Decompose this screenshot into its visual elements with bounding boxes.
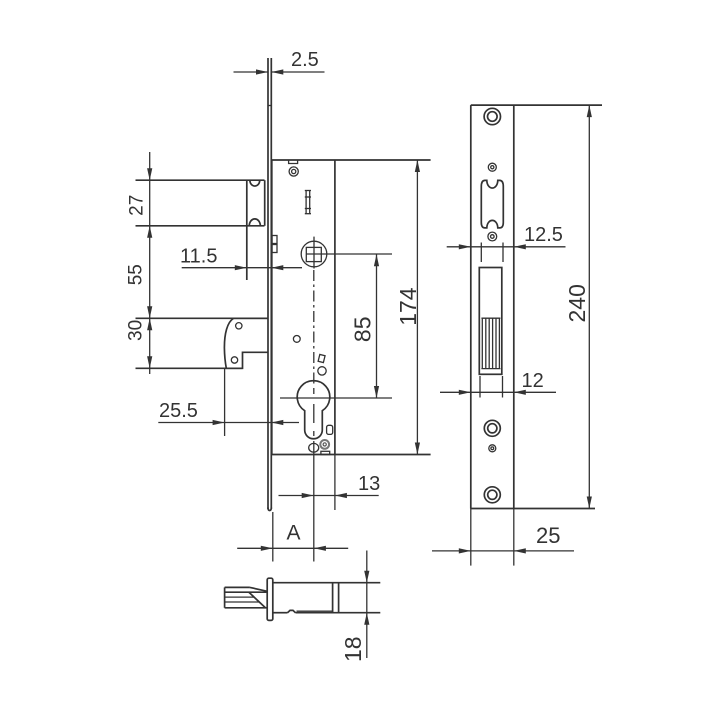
plate outline bbox=[471, 105, 602, 508]
svg-text:11.5: 11.5 bbox=[180, 246, 217, 268]
dimension 2.5 (faceplate thickness) bbox=[234, 49, 325, 75]
screw top bbox=[289, 167, 298, 176]
svg-text:25: 25 bbox=[536, 523, 560, 548]
top clip bbox=[289, 160, 298, 164]
extension line y=368.3 (lever bottom) bbox=[136, 367, 243, 369]
svg-text:174: 174 bbox=[395, 287, 421, 326]
latch head (bottom view) bbox=[225, 587, 268, 607]
svg-text:13: 13 bbox=[358, 473, 380, 495]
dimension 25 bbox=[432, 509, 574, 566]
extension line y=318.3 (lever top) bbox=[136, 317, 268, 319]
dimension 240 bbox=[564, 105, 592, 508]
small rounded rect right of cylinder bbox=[327, 425, 333, 434]
dimension 85 bbox=[349, 254, 379, 398]
svg-text:27: 27 bbox=[127, 195, 148, 216]
svg-text:2.5: 2.5 bbox=[291, 49, 319, 71]
latch bolt (side) bbox=[136, 180, 265, 280]
body right edge extension (13 dim) bbox=[334, 455, 336, 511]
lever quarter-disc piece bbox=[224, 318, 267, 368]
follower hub (square spindle) bbox=[301, 237, 392, 269]
stubs below cutout bbox=[479, 376, 481, 398]
svg-text:A: A bbox=[287, 522, 301, 545]
svg-text:240: 240 bbox=[564, 284, 590, 322]
dimension A bbox=[237, 512, 348, 562]
case (bottom view) bbox=[273, 583, 381, 613]
deadbolt with hatch bbox=[481, 318, 500, 368]
small screw bbox=[488, 163, 496, 171]
screw hole mid bbox=[484, 420, 500, 436]
gray screw bbox=[320, 440, 329, 449]
dimension 25.5 bbox=[158, 368, 299, 436]
euro cylinder profile bbox=[297, 381, 330, 439]
svg-text:25.5: 25.5 bbox=[159, 400, 198, 422]
dimension 174 bbox=[395, 160, 421, 455]
faceplate bar bbox=[267, 578, 273, 620]
small circle below tilted square bbox=[318, 367, 326, 375]
left dimension chain 27 / 55 / 30 bbox=[126, 152, 153, 374]
stubs above cutout bbox=[480, 243, 482, 263]
svg-text:12.5: 12.5 bbox=[524, 224, 563, 246]
dimension 11.5 bbox=[180, 246, 302, 271]
faceplate small rects bbox=[272, 236, 277, 253]
tilted small square bbox=[318, 354, 325, 362]
slot feature (ladder) bbox=[305, 190, 311, 214]
dimension 12.5 bbox=[447, 224, 566, 249]
svg-text:30: 30 bbox=[126, 320, 147, 341]
small rect on bottom line bbox=[321, 451, 330, 454]
latch opening (bone shape) bbox=[481, 180, 503, 228]
svg-text:85: 85 bbox=[349, 317, 375, 343]
faceplate edge (double line) bbox=[268, 58, 271, 511]
svg-text:55: 55 bbox=[126, 264, 147, 285]
small hole circle bbox=[293, 336, 300, 343]
small screw 3 bbox=[489, 445, 496, 452]
small ellipse bbox=[309, 443, 319, 452]
center dash-dot line bbox=[313, 270, 315, 562]
lock case outline bbox=[272, 160, 431, 455]
screw hole bottom bbox=[484, 487, 500, 503]
dimension 18 bbox=[340, 551, 369, 662]
screw hole top bbox=[484, 108, 500, 124]
svg-text:12: 12 bbox=[522, 370, 544, 392]
cylinder center extension line bbox=[280, 397, 392, 399]
dimension 12 bbox=[440, 370, 556, 395]
svg-text:18: 18 bbox=[340, 636, 366, 662]
dimension 13 bbox=[279, 473, 381, 498]
small screw 2 bbox=[488, 232, 497, 241]
deadbolt cutout bbox=[479, 268, 502, 375]
